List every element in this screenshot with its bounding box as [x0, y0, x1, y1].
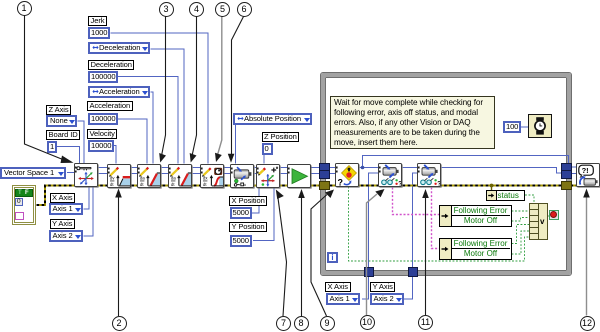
- error junction dot: [490, 184, 494, 188]
- VI U6 Set Operation Mode: [230, 164, 254, 188]
- arrowhead 2: [115, 189, 122, 198]
- callout line 8: [301, 197, 303, 316]
- callout circle 1: [17, 1, 32, 16]
- wire x position to VI7: [252, 187, 259, 214]
- label Y Axis (bottom): [370, 282, 395, 292]
- label Z Axis: [46, 105, 71, 115]
- wait ms function: [528, 114, 552, 138]
- status indicator: [486, 190, 526, 201]
- tunnel right olive: [561, 181, 572, 190]
- VI U1 Configure Vector Space: [74, 163, 98, 187]
- arrowhead 12: [583, 189, 590, 198]
- wire acceleration value to VI3: [118, 119, 147, 164]
- wire deceleration value to VI4: [118, 77, 178, 164]
- arrowhead 7: [276, 190, 284, 200]
- green wire status to OR: [525, 195, 534, 204]
- error cluster constant: [12, 185, 37, 225]
- callout line 11: [425, 197, 427, 315]
- green wire MO1 to OR: [512, 218, 530, 222]
- label Acceleration: [87, 101, 133, 111]
- VI U7 Load Vector Space Position: [256, 164, 280, 188]
- arrowhead 10: [375, 189, 384, 197]
- callout circle 6: [237, 2, 252, 17]
- wire board id to VI1: [56, 147, 80, 164]
- comment free label: [330, 96, 495, 149]
- green wire FE1 to OR: [512, 210, 530, 212]
- callout circle 9: [320, 316, 335, 331]
- VI U4 Load Accel/Decel b: [168, 164, 192, 188]
- constant 1: [47, 141, 57, 153]
- cluster Following Error / Motor Off 1: [439, 205, 512, 227]
- green wire MO2 to OR: [512, 231, 530, 254]
- arrowhead 1: [61, 156, 74, 164]
- tunnel left blue top: [319, 163, 330, 172]
- compound OR node: [529, 203, 548, 241]
- arrowhead 3: [159, 153, 166, 163]
- while loop: [320, 72, 572, 276]
- wire VI9 to VI10: [360, 167, 379, 169]
- enum Acceleration: [88, 86, 150, 98]
- callout line 12: [586, 196, 588, 316]
- callout circle 2: [112, 316, 127, 331]
- callout line 4: [192, 17, 197, 157]
- callout circle 4: [189, 2, 204, 17]
- constant 100: [503, 121, 521, 133]
- arrowhead 6: [228, 154, 235, 163]
- label X Position: [229, 196, 267, 206]
- green wire FE2 to OR: [512, 225, 530, 244]
- wire y position to VI7: [253, 187, 274, 241]
- callout circle 5: [215, 2, 230, 17]
- VI U12 Motion Error Handler: [576, 163, 600, 187]
- label X Axis (bottom): [325, 282, 351, 292]
- callout line 10: [367, 194, 378, 315]
- tunnel right blue top: [561, 163, 572, 172]
- label Deceleration: [88, 60, 134, 70]
- wire absolute position to VI6: [235, 125, 237, 164]
- enum Absolute Position: [233, 113, 312, 125]
- VI U11 Check Motor Off / Axis Status: [417, 163, 441, 187]
- callout circle 12: [580, 316, 595, 331]
- wire x axis bottom to VI10: [362, 173, 379, 299]
- label Y Axis (left): [50, 219, 75, 229]
- constant 10000: [88, 140, 114, 152]
- wire z position to VI7: [263, 154, 265, 164]
- junction dot resource branch: [361, 166, 365, 170]
- enum Axis 2 (bottom): [370, 293, 404, 305]
- callout line 9: [311, 195, 327, 317]
- label Velocity: [87, 129, 117, 139]
- arrowhead 5: [215, 153, 222, 162]
- callout circle 7: [276, 316, 291, 331]
- wire velocity to VI2: [113, 146, 117, 164]
- arrowhead 11: [422, 189, 429, 198]
- tunnel left olive: [319, 181, 330, 190]
- tunnel bottom y axis: [408, 267, 418, 277]
- wire vector space enum to VI1: [67, 172, 76, 174]
- callout circle 3: [159, 2, 174, 17]
- callout line 7: [278, 198, 287, 316]
- arrowhead 9: [325, 190, 334, 199]
- green wire move complete to OR: [349, 187, 530, 262]
- constant 5000 y: [230, 235, 252, 247]
- VI U9 Check Move Complete: [335, 163, 359, 187]
- VI U3 Load Accel/Decel a: [137, 164, 161, 188]
- cluster Following Error / Motor Off 2: [439, 238, 512, 260]
- status stub wire: [491, 186, 493, 191]
- wire jerk 1000 to VI5: [111, 33, 209, 164]
- label Board ID: [46, 130, 80, 140]
- enum None: [46, 115, 77, 127]
- tunnel left blue bottom: [319, 170, 330, 179]
- wire VI10 to VI11: [403, 167, 418, 169]
- callout circle 8: [294, 316, 309, 331]
- callout line 3: [162, 17, 166, 157]
- wire left tunnel to VI9: [325, 168, 336, 174]
- arrowhead 8: [298, 189, 305, 198]
- wire deceleration enum to VI4: [151, 49, 185, 164]
- wire axis1 left to VI1: [84, 187, 90, 210]
- error wire base: [37, 186, 578, 206]
- constant 100000 b: [88, 113, 118, 125]
- enum Axis 1 (bottom): [326, 293, 360, 305]
- constant 1000: [88, 27, 110, 39]
- callout line 1: [25, 16, 65, 161]
- label Y Position: [229, 222, 267, 232]
- enum Axis 2 (left): [49, 230, 83, 242]
- VI U5 Load Jerk: [200, 164, 224, 188]
- enum Deceleration: [88, 42, 150, 54]
- label X Axis (left): [50, 193, 76, 203]
- constant 100000: [88, 71, 118, 83]
- tunnel right blue bottom: [561, 170, 572, 179]
- enum Vector Space 1: [0, 167, 66, 179]
- wire z axis none to VI1: [78, 121, 85, 164]
- callout circle 11: [418, 315, 433, 330]
- wire y axis bottom to VI11: [404, 173, 418, 299]
- wire board y173 between VIs: [99, 173, 325, 175]
- green wire OR out to stop: [548, 215, 550, 217]
- callout line 5: [218, 17, 222, 156]
- callout line 6: [232, 17, 244, 155]
- wire VI9 branch up over to right tunnel: [363, 156, 569, 168]
- error wire dashes: [37, 186, 578, 206]
- wire axis2 left to VI1: [84, 187, 94, 237]
- wire right tunnels to VI12: [571, 167, 577, 174]
- label Jerk: [88, 16, 107, 26]
- pink wire VI11 to cluster2: [432, 188, 440, 249]
- callout circle 10: [360, 315, 375, 330]
- VI U8 Start Motion: [287, 164, 311, 188]
- wire 100 to wait: [521, 126, 529, 128]
- arrowhead 4: [190, 153, 197, 163]
- wire VI11 to right tunnel: [442, 168, 563, 174]
- VI U2 Load Velocity: [107, 164, 131, 188]
- label Z Position: [262, 132, 300, 142]
- VI U10 Check Following Error / Axis Status: [378, 163, 402, 187]
- pink wire VI10 to cluster1: [393, 188, 440, 215]
- constant 0: [262, 143, 273, 155]
- wire resource y167 between VIs: [99, 167, 325, 169]
- callout line 2: [118, 196, 120, 316]
- wire acceleration enum to VI3: [151, 92, 154, 164]
- constant 5000 x: [230, 207, 252, 219]
- iteration terminal i: [327, 252, 338, 263]
- enum Axis 1 (left): [49, 203, 83, 215]
- loop stop terminal: [549, 210, 560, 221]
- tunnel bottom x axis: [364, 267, 374, 277]
